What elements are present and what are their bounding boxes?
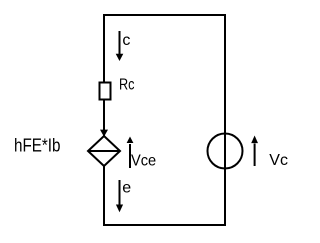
svg-text:c: c: [122, 32, 130, 49]
svg-text:Vc: Vc: [269, 152, 288, 169]
svg-text:e: e: [122, 180, 131, 197]
svg-text:Rc: Rc: [119, 76, 135, 93]
svg-text:Vce: Vce: [131, 152, 156, 169]
svg-text:hFE*Ib: hFE*Ib: [14, 135, 61, 156]
